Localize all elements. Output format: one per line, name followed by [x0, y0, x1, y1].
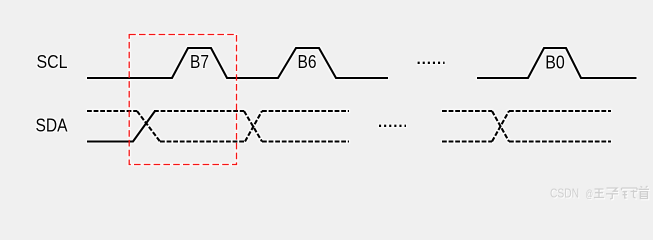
- watermark glyph 4 (首): [639, 186, 650, 199]
- svg-text:B7: B7: [190, 52, 209, 72]
- wire SDA bottom dashed segment 5: [509, 140, 611, 142]
- wire SDA top dashed segment 1: [87, 110, 137, 112]
- wire SCL waveform left (pulses B7, B6): [87, 48, 388, 78]
- wire SDA bottom solid start + rising solid diagonal: [87, 111, 155, 142]
- SDA ellipsis dots: [379, 125, 406, 127]
- svg-text:B0: B0: [545, 53, 565, 73]
- wire SDA bottom dashed segment 3: [262, 140, 349, 142]
- highlight box (red dashed): [129, 35, 236, 165]
- wire SCL waveform right (pulse B0): [477, 48, 637, 78]
- wire SDA top dashed segment 4: [442, 110, 492, 112]
- wire SDA top dashed segment 5: [509, 110, 611, 112]
- wire SDA crossing 2 falling diagonal: [244, 111, 262, 142]
- wire SDA crossing 2 rising diagonal: [245, 111, 262, 142]
- watermark glyph 3 (冠): [622, 188, 638, 198]
- wire SDA top dashed segment 3: [262, 110, 349, 112]
- svg-text:B6: B6: [298, 52, 317, 72]
- watermark glyph 1 (王): [594, 189, 604, 198]
- svg-text:SDA: SDA: [36, 116, 68, 136]
- wire SDA bottom dashed segment 2: [160, 140, 245, 142]
- wire SDA top dashed segment 2: [154, 110, 244, 112]
- svg-text:SCL: SCL: [37, 52, 68, 72]
- svg-text:@: @: [586, 188, 594, 200]
- svg-text:CSDN: CSDN: [550, 186, 579, 200]
- SCL ellipsis dots: [418, 62, 445, 64]
- wire SDA bottom dashed segment 4: [442, 140, 492, 142]
- watermark glyph 2 (予): [606, 188, 618, 199]
- wire SDA crossing 3 rising diagonal: [492, 111, 509, 142]
- watermark shadow: [551, 187, 650, 201]
- wire SDA falling dashed diagonal (crossing 1): [137, 111, 160, 142]
- wire SDA crossing 3 falling diagonal: [492, 111, 509, 142]
